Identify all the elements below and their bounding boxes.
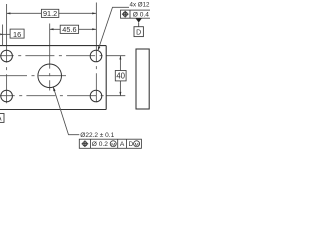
leader for large hole: [53, 87, 79, 135]
extension line x=6.6 up for dims: [6, 4, 8, 46]
dimension 91.2 line: [7, 12, 96, 14]
datum D stem: [138, 23, 140, 27]
front view right edge: [105, 46, 107, 110]
dimension 91.2 right arrow: [92, 12, 96, 14]
dimension 91.2 left arrow: [7, 12, 11, 14]
large center hole: [38, 64, 62, 88]
hole top-right: [90, 50, 102, 62]
hole bottom-right: [90, 90, 102, 102]
hole top-left: [1, 50, 13, 62]
extension line x=49.7 up for 45.6 dim: [49, 24, 51, 46]
dimension 16 label box: [10, 29, 24, 38]
extension line y=56 right for 40 dim: [106, 55, 125, 57]
svg-text:45.6: 45.6: [62, 25, 76, 34]
extension line left for 16 dim: [2, 25, 4, 46]
svg-text:Ø 0.4: Ø 0.4: [133, 12, 149, 19]
dimension 40 line vertical: [119, 56, 121, 96]
hole bottom-left: [1, 90, 13, 102]
dimension 40 bottom arrow: [119, 92, 121, 96]
svg-text:D: D: [129, 141, 134, 148]
dimension 45.6 label box: [60, 25, 78, 33]
datum D box: [134, 27, 143, 37]
front view bottom edge: [0, 109, 106, 111]
extension line x=96 up for dims: [95, 3, 97, 46]
svg-text:91.2: 91.2: [43, 9, 57, 18]
dimension 45.6 right arrow: [92, 28, 96, 30]
datum A box: [0, 114, 4, 123]
svg-text:40: 40: [116, 72, 125, 81]
centerline horizontal y=96 through lower holes: [0, 95, 106, 97]
front view top edge: [0, 45, 106, 47]
side view outline: [136, 49, 149, 109]
leader arrow at top-right hole: [98, 46, 100, 50]
feature control frame top (4x holes): [121, 10, 152, 18]
datum D triangle: [136, 18, 142, 22]
extension line y=96 right for 40 dim: [106, 95, 125, 97]
dimension 45.6 left arrow: [50, 28, 54, 30]
svg-text:M: M: [111, 142, 115, 148]
dimension 40 label box: [115, 71, 126, 81]
centerline horizontal y=56 through upper holes: [0, 55, 106, 57]
svg-text:A: A: [120, 141, 125, 148]
dimension 40 top arrow: [119, 56, 121, 60]
svg-text:Ø22.2 ± 0.1: Ø22.2 ± 0.1: [80, 132, 114, 139]
position symbol: [123, 12, 127, 16]
feature control frame bottom (large hole): [79, 139, 141, 148]
M circle 1: [110, 141, 116, 147]
centerline vertical left holes x=6.6: [6, 46, 8, 104]
svg-text:M: M: [135, 142, 139, 148]
dimension 91.2 label box: [41, 9, 58, 17]
dimension 45.6 line: [50, 28, 96, 30]
centerline vertical right holes x=96: [95, 46, 97, 107]
svg-text:D: D: [136, 29, 141, 36]
svg-text:4x Ø12: 4x Ø12: [130, 1, 151, 8]
leader arrow at large hole: [53, 87, 55, 91]
position symbol: [83, 142, 87, 146]
dimension 16 line: [3, 33, 11, 35]
M circle 2: [134, 141, 140, 147]
svg-text:Ø 0.2: Ø 0.2: [92, 141, 108, 148]
svg-text:16: 16: [13, 30, 21, 39]
centerline vertical large hole x=49.7: [49, 46, 51, 91]
leader for 4x holes: [98, 7, 129, 50]
dimension 16 arrow: [0, 33, 3, 35]
centerline horizontal large hole y=76: [0, 75, 66, 77]
